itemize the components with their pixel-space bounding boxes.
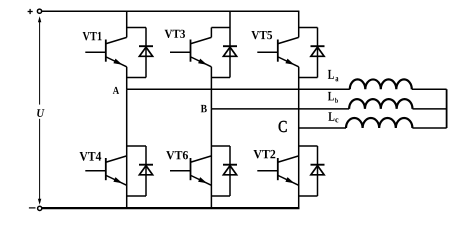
inductor Lc [346,118,412,128]
label VT6 [166,151,188,159]
wire leg2 rail drop via diode branch [229,11,231,77]
negative terminal circle [38,206,42,210]
wire leg3 top stub [299,27,318,29]
wire leg3 lower top stub [299,145,318,147]
wire leg2 node B to bottom rail [210,109,212,208]
node A label [113,87,119,94]
wire leg1 lower bottom stub [127,195,146,197]
wire phase C line [299,127,346,129]
node C label [279,121,287,132]
diode freewheel of VT5 [311,46,325,56]
wire leg2 lower bottom stub [211,195,230,197]
label Lc [328,112,338,122]
transistor VT5 [257,37,298,66]
wire phase c to neutral bus [412,127,446,129]
wire diode branch leg2 bottom [229,146,231,196]
diode freewheel of VT3 [223,46,237,56]
wire leg2 bottom stub [211,77,230,79]
label VT1 [83,32,102,41]
label VT4 [80,152,102,161]
wire leg1 node A to bottom rail [126,89,128,208]
wire phase A line [127,88,350,90]
label VT2 [254,150,276,159]
wire leg3 lower bottom stub [299,195,318,197]
wire leg3 bottom stub [299,77,318,79]
wire leg2 top stub [211,27,230,29]
wire leg1 emitter to node A [126,67,128,89]
wire leg2 emitter to node B [210,67,212,109]
wire diode branch leg1 bottom [145,146,147,196]
top DC rail [42,10,300,12]
wire leg3 emitter to node C [298,67,300,128]
label U [37,109,44,117]
label VT5 [251,31,272,39]
wire leg2 collector drop [210,28,212,38]
wire phase b to neutral bus [413,108,447,110]
voltage arrow upper segment [38,16,41,104]
wire diode branch leg3 top [317,28,319,78]
diode freewheel of VT2 [311,165,325,175]
wire phase B line [211,108,349,110]
diode freewheel of VT4 [139,165,153,175]
wire leg3 node C to bottom rail [298,128,300,208]
transistor VT3 [170,37,211,66]
transistor VT1 [85,37,126,66]
wire diode branch leg3 bottom [317,146,319,196]
wire diode branch leg1 top [145,28,147,78]
label Lb [328,92,338,103]
bottom DC rail [42,207,300,209]
negative terminal minus sign [29,207,36,209]
wire leg2 lower top stub [211,145,230,147]
wire leg3 rail drop [298,11,300,37]
positive terminal plus sign [28,9,33,14]
inductor Lb [349,99,412,109]
voltage arrow lower segment [38,119,41,205]
wire leg1 top stub [127,27,146,29]
transistor VT2 [257,156,298,185]
inductor La [350,79,412,89]
transistor VT6 [170,156,211,185]
wire phase a to neutral bus [412,88,447,90]
wire leg1 bottom stub [127,77,146,79]
label La [328,70,339,82]
node B label [201,105,207,112]
wire leg1 lower top stub [127,145,146,147]
transistor VT4 [85,156,126,185]
label VT3 [165,30,185,38]
wire leg1 rail drop [126,11,128,37]
diode freewheel of VT1 [139,46,153,56]
positive terminal circle [37,9,41,13]
diode freewheel of VT6 [223,165,237,175]
neutral bus wire [446,89,448,128]
